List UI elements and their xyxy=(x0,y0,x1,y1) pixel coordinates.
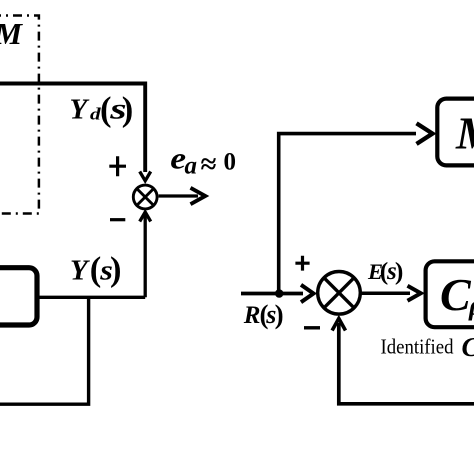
svg-text:C: C xyxy=(462,332,474,362)
summing junction 1 xyxy=(133,185,157,209)
plant block (cropped at left edge) xyxy=(0,268,37,325)
svg-text:ρ: ρ xyxy=(468,291,474,321)
arrowhead down into junction 1 xyxy=(140,172,151,181)
plus sign at junction 1 xyxy=(109,156,126,176)
E(s) wire into C block xyxy=(361,292,410,296)
svg-text:): ) xyxy=(395,257,404,286)
output arrow ea from junction 1 xyxy=(159,194,198,197)
svg-text:0: 0 xyxy=(224,149,237,176)
M block (right, cropped) xyxy=(437,99,474,166)
svg-text:): ) xyxy=(122,91,134,129)
svg-text:Identified: Identified xyxy=(381,335,454,359)
minus sign at junction 1 xyxy=(110,218,125,221)
label ea ≈ 0 xyxy=(170,142,186,176)
summing junction 2 xyxy=(318,272,361,315)
wire from R(s) node up and right into M block xyxy=(279,134,416,294)
node dot on R(s) wire xyxy=(275,289,284,298)
svg-text:M: M xyxy=(0,16,24,51)
svg-text:R: R xyxy=(243,302,261,329)
branch wire down and out left xyxy=(0,297,89,404)
svg-text:Y: Y xyxy=(70,94,90,126)
svg-text:): ) xyxy=(275,299,284,329)
feedback wire from right edge into junction 2 bottom xyxy=(339,323,474,404)
svg-text:≈: ≈ xyxy=(201,149,217,181)
svg-text:): ) xyxy=(110,250,122,288)
C_rho block (cropped at right) xyxy=(426,261,474,327)
minus sign at junction 2 xyxy=(304,326,320,329)
R(s) input wire with arrow into junction 2 xyxy=(241,292,303,296)
svg-text:a: a xyxy=(185,153,198,180)
dash-dot box M (reference model boundary, cropped at left) xyxy=(0,16,39,214)
svg-text:M: M xyxy=(455,108,474,159)
svg-text:C: C xyxy=(440,269,472,320)
wire from plant block to junction 1 xyxy=(37,296,145,299)
wire Yd(s): horizontal from left edge then down into summing junction 1 xyxy=(0,84,145,173)
feedback wire up into junction 1 (from Y(s) line) xyxy=(144,215,147,297)
svg-text:Y: Y xyxy=(70,255,90,287)
plus sign at junction 2 xyxy=(295,256,309,271)
